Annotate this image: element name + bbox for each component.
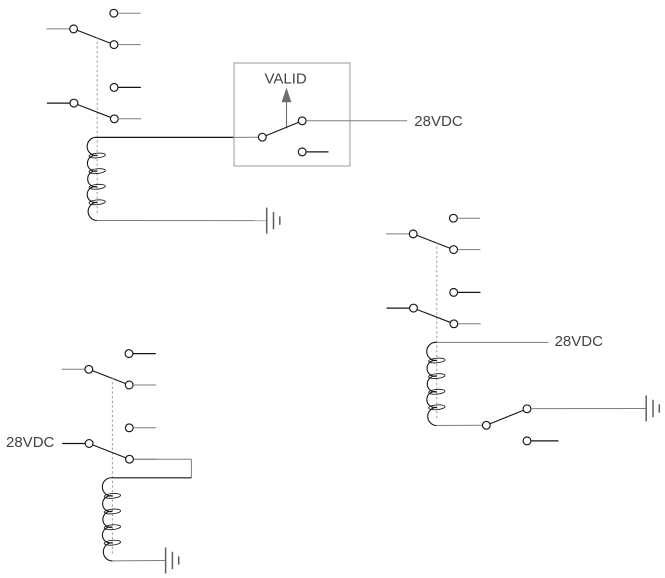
wire K1 coil to VALID switch common (97, 136, 258, 138)
relay K1 pole 2 movable contact wire (47, 102, 70, 104)
relay K3 pole 2 common terminal (85, 440, 93, 448)
switch S2 lower terminal wire (531, 440, 559, 442)
relay K1 pole 2 common terminal (70, 99, 78, 107)
relay K2 pole 1 NC terminal wire (457, 217, 480, 219)
relay K1 pole 2 NO terminal wire (118, 118, 141, 120)
wire K2 coil to 28VDC (437, 341, 549, 343)
relay K2 pole 2 NO terminal wire (458, 323, 481, 325)
relay K2 pole 2 movable contact wire (387, 307, 410, 309)
relay K3 pole 1 NO terminal wire (133, 384, 156, 386)
relay K3 pole 1 movable contact wire (62, 368, 85, 370)
relay K1 pole 2 switch blade (78, 105, 111, 118)
relay K3 pole 1 NO terminal (125, 381, 133, 389)
wire K3 coil to ground (112, 560, 164, 562)
relay K3 pole 1 common terminal (85, 365, 93, 373)
relay K3 mechanical linkage (dashed) (111, 377, 113, 555)
relay K3 pole 2 movable contact wire (62, 443, 85, 445)
relay K3 pole 2 NC terminal wire (133, 427, 156, 429)
relay K3 pole 1 NC terminal (125, 350, 133, 358)
ground G1 (267, 208, 280, 234)
relay K3 pole 1 switch blade (93, 371, 126, 384)
switch S2 upper terminal (523, 405, 531, 413)
relay K3 pole 1 NC terminal wire (133, 353, 156, 355)
relay K3 coil (102, 478, 120, 561)
relay K2 mechanical linkage (dashed) (436, 242, 438, 420)
relay K1 mechanical linkage (dashed) (96, 37, 98, 215)
switch S1 common terminal (258, 133, 266, 141)
relay K1 pole 1 movable contact wire (47, 28, 70, 30)
relay K2 pole 1 common terminal (409, 230, 417, 238)
indicator arrow (282, 88, 292, 129)
relay K1 pole 2 NC terminal (110, 84, 118, 92)
svg-text:28VDC: 28VDC (555, 333, 604, 350)
relay K1 pole 1 NO terminal (110, 41, 118, 49)
relay K2 pole 1 NO terminal wire (458, 249, 481, 251)
wire S2 to ground (531, 408, 645, 410)
switch S1 lower terminal (298, 148, 306, 156)
relay K1 pole 1 common terminal (70, 25, 78, 33)
wire K3 NO contact to coil (112, 459, 191, 478)
wire K2 coil to switch S2 (437, 424, 483, 426)
label 28VDC (right) (555, 333, 604, 350)
relay K2 coil (427, 342, 445, 425)
wire K1 coil to ground (97, 220, 266, 222)
label 28VDC (left) (6, 434, 55, 451)
ground G2 (646, 396, 659, 422)
relay K1 coil (87, 137, 105, 220)
relay K3 pole 2 switch blade (93, 445, 126, 458)
relay K1 pole 1 NO terminal wire (118, 44, 141, 46)
VALID annunciator box (234, 63, 350, 166)
switch S2 common terminal (482, 421, 490, 429)
switch S1 upper terminal (298, 117, 306, 125)
switch S2 lower terminal (523, 437, 531, 445)
relay K1 pole 1 NC terminal (110, 9, 118, 17)
relay K2 pole 1 switch blade (417, 235, 450, 248)
ground G3 (166, 548, 179, 574)
switch S1 blade (266, 122, 298, 135)
relay K2 pole 2 NC terminal (450, 289, 458, 297)
switch S1 lower terminal wire (306, 151, 328, 153)
label 28VDC (top) (414, 113, 463, 130)
relay K3 pole 2 NO terminal (126, 455, 134, 463)
relay K1 pole 1 switch blade (77, 30, 110, 43)
relay K2 pole 2 common terminal (410, 304, 418, 312)
relay K1 pole 2 NC terminal wire (118, 86, 141, 88)
relay K2 pole 2 NC terminal wire (458, 291, 481, 293)
relay K3 pole 2 NO terminal wire (134, 458, 157, 460)
relay K1 pole 1 NC terminal wire (118, 12, 141, 14)
svg-text:VALID: VALID (264, 70, 306, 87)
svg-text:28VDC: 28VDC (6, 434, 55, 451)
svg-text:28VDC: 28VDC (414, 113, 463, 130)
relay K3 pole 2 NC terminal (125, 424, 133, 432)
relay K2 pole 1 NC terminal (450, 214, 458, 222)
relay K2 pole 2 switch blade (417, 310, 450, 323)
relay K2 pole 1 NO terminal (450, 246, 458, 254)
relay K1 pole 2 NO terminal (110, 115, 118, 123)
wire S1 to 28VDC (306, 120, 407, 122)
relay K2 pole 1 movable contact wire (386, 233, 409, 235)
label VALID (264, 70, 306, 87)
relay K2 pole 2 NO terminal (450, 320, 458, 328)
switch S2 blade (490, 410, 523, 423)
